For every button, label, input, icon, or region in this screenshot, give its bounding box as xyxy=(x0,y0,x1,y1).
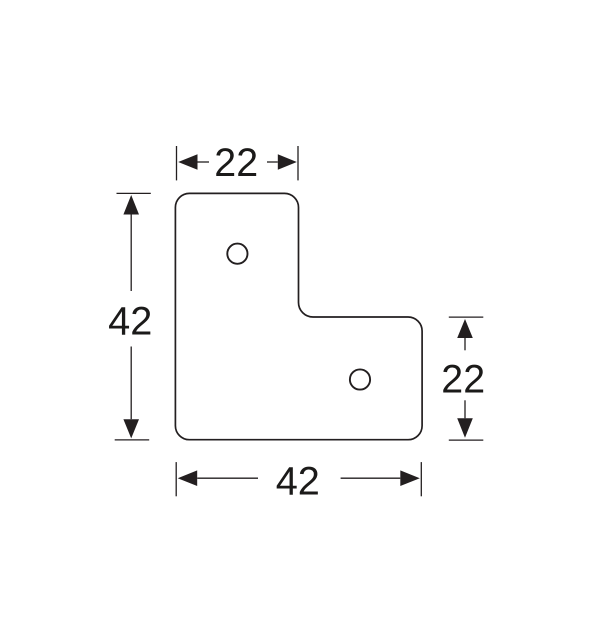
svg-text:42: 42 xyxy=(108,299,152,343)
svg-text:22: 22 xyxy=(441,358,485,402)
svg-text:42: 42 xyxy=(276,459,320,503)
svg-text:22: 22 xyxy=(214,141,258,185)
